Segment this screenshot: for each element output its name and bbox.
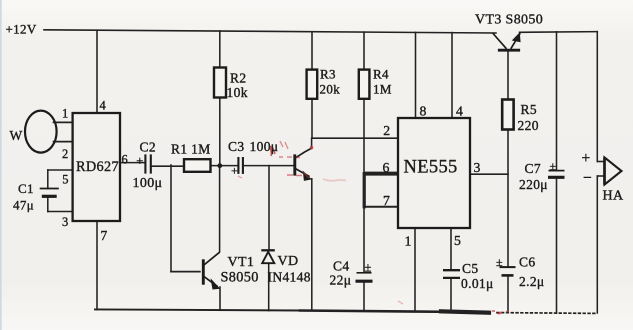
svg-text:4: 4 [456,104,463,119]
svg-text:C3: C3 [228,139,244,154]
svg-text:1: 1 [62,107,69,121]
svg-text:R2: R2 [230,71,246,86]
svg-text:R1 1M: R1 1M [171,142,211,157]
svg-text:IN4148: IN4148 [268,270,311,285]
svg-text:100μ: 100μ [250,139,279,154]
svg-text:±: ± [365,261,372,275]
svg-text:100μ: 100μ [133,176,163,191]
svg-text:W: W [10,128,23,143]
svg-text:220: 220 [518,118,539,133]
svg-text:C4: C4 [333,259,349,274]
svg-text:1: 1 [405,234,412,249]
svg-text:+: + [231,164,238,178]
svg-text:VT3 S8050: VT3 S8050 [475,13,543,28]
svg-text:RD627: RD627 [76,159,119,175]
svg-text:C5: C5 [462,261,478,276]
svg-text:±: ± [496,255,503,269]
svg-text:C1: C1 [18,181,34,196]
svg-text:R4: R4 [373,67,389,82]
svg-text:6: 6 [383,160,390,175]
svg-text:−: − [583,169,592,186]
svg-text:C2: C2 [140,140,156,155]
svg-text:2: 2 [62,147,69,161]
svg-text:R5: R5 [521,102,537,117]
svg-text:VT1: VT1 [228,255,255,270]
svg-text:R3: R3 [320,67,336,82]
svg-text:+: + [582,150,591,167]
svg-text:3: 3 [62,215,69,229]
svg-text:3: 3 [474,160,481,175]
svg-text:5: 5 [454,233,461,248]
svg-text:10k: 10k [227,85,248,100]
svg-text:8: 8 [420,104,427,119]
svg-text:6: 6 [122,153,129,167]
svg-text:S8050: S8050 [221,270,259,286]
svg-text:±: ± [550,159,557,173]
svg-text:47μ: 47μ [13,198,34,213]
svg-text:C6: C6 [519,255,535,270]
svg-text:7: 7 [101,228,108,243]
svg-text:1M: 1M [373,82,392,97]
svg-text:C7: C7 [525,161,541,176]
svg-text:+: + [136,154,143,168]
svg-text:7: 7 [383,193,390,208]
svg-text:HA: HA [603,189,624,204]
svg-text:+12V: +12V [6,22,37,37]
svg-text:2.2μ: 2.2μ [519,274,545,289]
svg-text:20k: 20k [320,82,341,97]
svg-text:0.01μ: 0.01μ [461,276,494,291]
svg-text:22μ: 22μ [330,273,352,288]
svg-text:220μ: 220μ [519,177,548,192]
svg-text:5: 5 [62,172,69,186]
svg-text:NE555: NE555 [404,158,458,178]
svg-text:2: 2 [383,123,390,138]
svg-text:VD: VD [278,254,299,269]
svg-text:4: 4 [100,99,107,113]
